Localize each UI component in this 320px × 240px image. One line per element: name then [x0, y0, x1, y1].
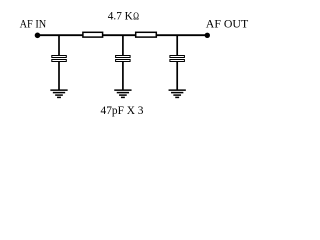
resistor R1 (4.7 kΩ) — [83, 32, 103, 37]
label AF OUT — [206, 17, 249, 31]
label 4.7 KΩ — [108, 9, 139, 23]
capacitor C1 (47 pF) — [52, 56, 67, 62]
capacitor C3 (47 pF) — [170, 56, 185, 62]
resistor R2 (4.7 kΩ) — [136, 32, 157, 37]
ground (under C2) — [114, 90, 131, 97]
label 47pF X 3 — [101, 103, 144, 117]
node AF IN (dot) — [35, 33, 41, 39]
svg-text:47pF X 3: 47pF X 3 — [101, 103, 144, 117]
label AF IN — [20, 17, 47, 31]
svg-text:Ω: Ω — [133, 12, 139, 23]
wire: capacitor C3 top lead — [176, 35, 178, 57]
ground (under C1) — [50, 90, 67, 97]
wire: capacitor C2 top lead — [122, 35, 124, 57]
wire: capacitor C3 bottom lead — [176, 62, 178, 90]
wire: capacitor C2 bottom lead — [122, 62, 124, 90]
svg-text:AF IN: AF IN — [20, 17, 47, 31]
wire: capacitor C1 bottom lead — [58, 62, 60, 90]
node AF OUT (dot) — [205, 33, 210, 38]
wire: capacitor C1 top lead — [58, 35, 60, 57]
svg-text:AF OUT: AF OUT — [206, 17, 249, 31]
capacitor C2 (47 pF) — [116, 56, 131, 62]
svg-text:4.7 K: 4.7 K — [108, 9, 133, 23]
wire: main horizontal AF line — [37, 34, 208, 36]
ground (under C3) — [169, 90, 186, 97]
